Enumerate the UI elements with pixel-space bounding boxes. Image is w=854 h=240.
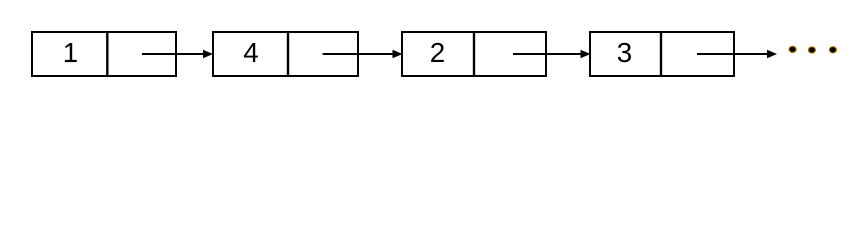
svg-text:2: 2 [430,37,445,68]
svg-text:3: 3 [617,37,632,68]
ellipsis dot 2 [808,46,817,54]
wire arrow N3 to N4 [513,50,591,59]
svg-text:4: 4 [243,37,258,68]
wire arrow N1 to N2 [142,50,213,59]
node N2 divider [287,32,289,76]
node N3 box [402,32,546,76]
node N1 box [32,32,176,76]
ellipsis dot 1 [788,46,797,54]
ellipsis dot 3 [829,46,838,54]
node N1 value label "1" [63,37,78,68]
node N3 divider [473,32,475,76]
node N2 box [213,32,358,76]
node N1 divider [106,32,108,76]
wire arrow N4 to ellipsis [697,50,777,59]
node N4 box [590,32,734,76]
node N4 divider [660,32,662,76]
svg-text:1: 1 [63,37,78,68]
wire arrow N2 to N3 [323,50,403,59]
